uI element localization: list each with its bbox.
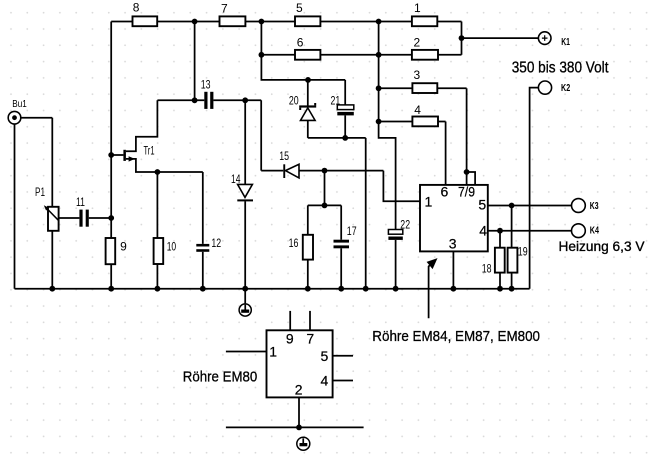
svg-text:14: 14 xyxy=(231,172,241,186)
svg-text:10: 10 xyxy=(167,240,177,254)
svg-text:5: 5 xyxy=(321,348,329,364)
svg-text:17: 17 xyxy=(347,224,357,238)
svg-text:350 bis 380 Volt: 350 bis 380 Volt xyxy=(512,60,609,77)
svg-text:20: 20 xyxy=(289,93,299,107)
svg-text:9: 9 xyxy=(120,240,127,254)
svg-text:1: 1 xyxy=(414,1,421,15)
svg-text:Röhre EM80: Röhre EM80 xyxy=(183,368,257,385)
svg-text:7: 7 xyxy=(221,1,228,15)
svg-text:11: 11 xyxy=(76,195,85,209)
svg-text:9: 9 xyxy=(286,331,294,347)
svg-text:4: 4 xyxy=(479,223,487,239)
svg-text:Tr1: Tr1 xyxy=(144,144,155,158)
svg-text:6: 6 xyxy=(297,36,304,50)
svg-text:2: 2 xyxy=(414,36,421,50)
svg-text:21: 21 xyxy=(331,93,341,107)
svg-text:3: 3 xyxy=(449,236,457,252)
svg-text:3: 3 xyxy=(414,68,421,82)
svg-text:5: 5 xyxy=(296,1,303,15)
svg-text:18: 18 xyxy=(482,261,492,275)
svg-text:8: 8 xyxy=(133,1,140,15)
svg-text:7: 7 xyxy=(306,331,314,347)
svg-text:1: 1 xyxy=(425,194,433,210)
svg-text:6: 6 xyxy=(441,184,449,200)
svg-text:4: 4 xyxy=(321,373,329,389)
svg-text:22: 22 xyxy=(400,218,410,232)
svg-text:2: 2 xyxy=(295,381,303,397)
svg-text:K1: K1 xyxy=(561,37,570,48)
svg-text:Röhre EM84, EM87, EM800: Röhre EM84, EM87, EM800 xyxy=(372,328,540,345)
svg-text:P1: P1 xyxy=(35,185,45,199)
svg-text:7/9: 7/9 xyxy=(458,184,475,200)
svg-text:K4: K4 xyxy=(590,226,600,237)
svg-text:Heizung 6,3 V: Heizung 6,3 V xyxy=(559,238,646,254)
svg-text:Bu1: Bu1 xyxy=(12,98,27,110)
svg-text:5: 5 xyxy=(478,197,486,213)
svg-text:K3: K3 xyxy=(590,201,599,212)
svg-text:4: 4 xyxy=(414,103,421,117)
svg-text:12: 12 xyxy=(211,236,221,250)
svg-text:15: 15 xyxy=(279,149,289,163)
svg-text:19: 19 xyxy=(518,245,528,259)
svg-text:K2: K2 xyxy=(561,83,571,94)
svg-text:1: 1 xyxy=(269,344,277,360)
svg-text:16: 16 xyxy=(289,236,299,250)
svg-text:13: 13 xyxy=(201,77,211,91)
